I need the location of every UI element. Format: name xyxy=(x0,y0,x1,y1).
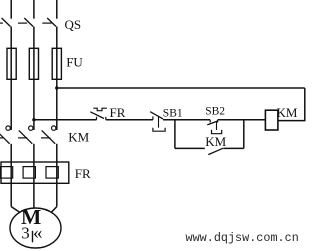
contactor KM main contact 3 circle xyxy=(52,126,56,130)
wire SB1 to SB2 xyxy=(163,119,210,121)
button SB1 NC blade xyxy=(150,112,163,119)
wire SB2 to coil KM xyxy=(218,119,266,121)
wire L3 bend into motor xyxy=(51,207,57,213)
thermal relay FR NC contact blade xyxy=(90,112,104,119)
switch QS pole 2 blade xyxy=(24,18,33,27)
button SB2 NO right stub xyxy=(217,120,219,123)
wire right drop to coil xyxy=(278,88,305,121)
wire L1 KM to FR xyxy=(10,144,12,207)
coil KM xyxy=(265,110,278,130)
thermal relay FR NC contact left stub xyxy=(96,117,98,120)
svg-text:«: « xyxy=(33,223,43,244)
svg-text:KM: KM xyxy=(68,130,89,145)
thermal relay FR heater 3 xyxy=(46,167,58,179)
wire control upper rail xyxy=(57,87,305,89)
contactor KM main contact 1 blade xyxy=(0,130,10,143)
svg-text:QS: QS xyxy=(65,17,82,32)
thermal relay FR NC contact release hook xyxy=(93,108,107,111)
switch QS linkage dashed line xyxy=(0,22,52,24)
wire L1 bend into motor xyxy=(11,207,20,213)
button SB2 NO left stub xyxy=(209,120,211,123)
button SB2 NO blade xyxy=(207,121,218,125)
switch QS pole 3 blade xyxy=(47,18,56,27)
svg-text:3: 3 xyxy=(21,223,30,242)
svg-text:SB1: SB1 xyxy=(163,107,183,119)
contactor KM main contact 1 circle xyxy=(6,126,10,130)
wire L2 KM to FR xyxy=(33,144,35,208)
contactor KM main contact 3 blade xyxy=(42,130,56,143)
svg-text:KM: KM xyxy=(205,134,226,149)
wire L1 top feed xyxy=(10,0,12,19)
wire L3 top feed xyxy=(56,0,58,19)
wire L3 QS to fuse xyxy=(56,27,58,131)
wire control lower rail to FR contact xyxy=(34,119,97,121)
wire latch branch bottom right xyxy=(223,147,243,149)
svg-text:KM: KM xyxy=(277,105,298,120)
thermal relay FR heater 1 xyxy=(0,167,12,179)
wire L3 KM to FR xyxy=(56,144,58,207)
svg-text:FR: FR xyxy=(110,105,126,120)
node control tap on L2 xyxy=(32,118,35,121)
node control tap on L3 xyxy=(55,86,58,89)
fuse FU pole 3 xyxy=(52,48,61,79)
contactor KM linkage dashed line xyxy=(0,137,50,139)
label phase tilde bar xyxy=(32,231,34,243)
button SB1 actuator stem xyxy=(158,117,160,128)
thermal relay FR NC contact right stub xyxy=(105,117,107,120)
fuse FU pole 1 xyxy=(7,48,16,79)
svg-text:www.dqjsw.com.cn: www.dqjsw.com.cn xyxy=(186,231,299,245)
button SB1 actuator cap xyxy=(153,128,165,132)
contactor KM main contact 2 circle xyxy=(29,126,33,130)
svg-text:FU: FU xyxy=(66,55,83,70)
wire L1 QS to fuse xyxy=(10,27,12,131)
thermal relay FR heater 2 xyxy=(23,167,35,179)
wire FR contact to SB1 xyxy=(106,119,153,121)
motor M circle xyxy=(10,208,61,248)
button SB2 actuator stem xyxy=(216,122,218,131)
button SB2 actuator cap xyxy=(212,130,222,134)
wire latch branch bottom left xyxy=(175,147,205,149)
svg-text:FR: FR xyxy=(75,166,91,181)
switch QS pole 1 blade xyxy=(2,18,11,27)
wire L2 top feed xyxy=(33,0,35,19)
svg-text:SB2: SB2 xyxy=(205,105,225,117)
button SB1 NC left stub xyxy=(152,116,154,119)
wire latch branch left drop xyxy=(174,120,176,149)
contactor KM main contact 2 blade xyxy=(19,130,33,143)
wire latch branch right rise xyxy=(243,120,245,149)
thermal relay FR box xyxy=(1,162,69,183)
wire L2 QS to fuse xyxy=(33,27,35,131)
contactor KM aux contact blade xyxy=(208,148,223,154)
fuse FU pole 2 xyxy=(29,48,38,79)
